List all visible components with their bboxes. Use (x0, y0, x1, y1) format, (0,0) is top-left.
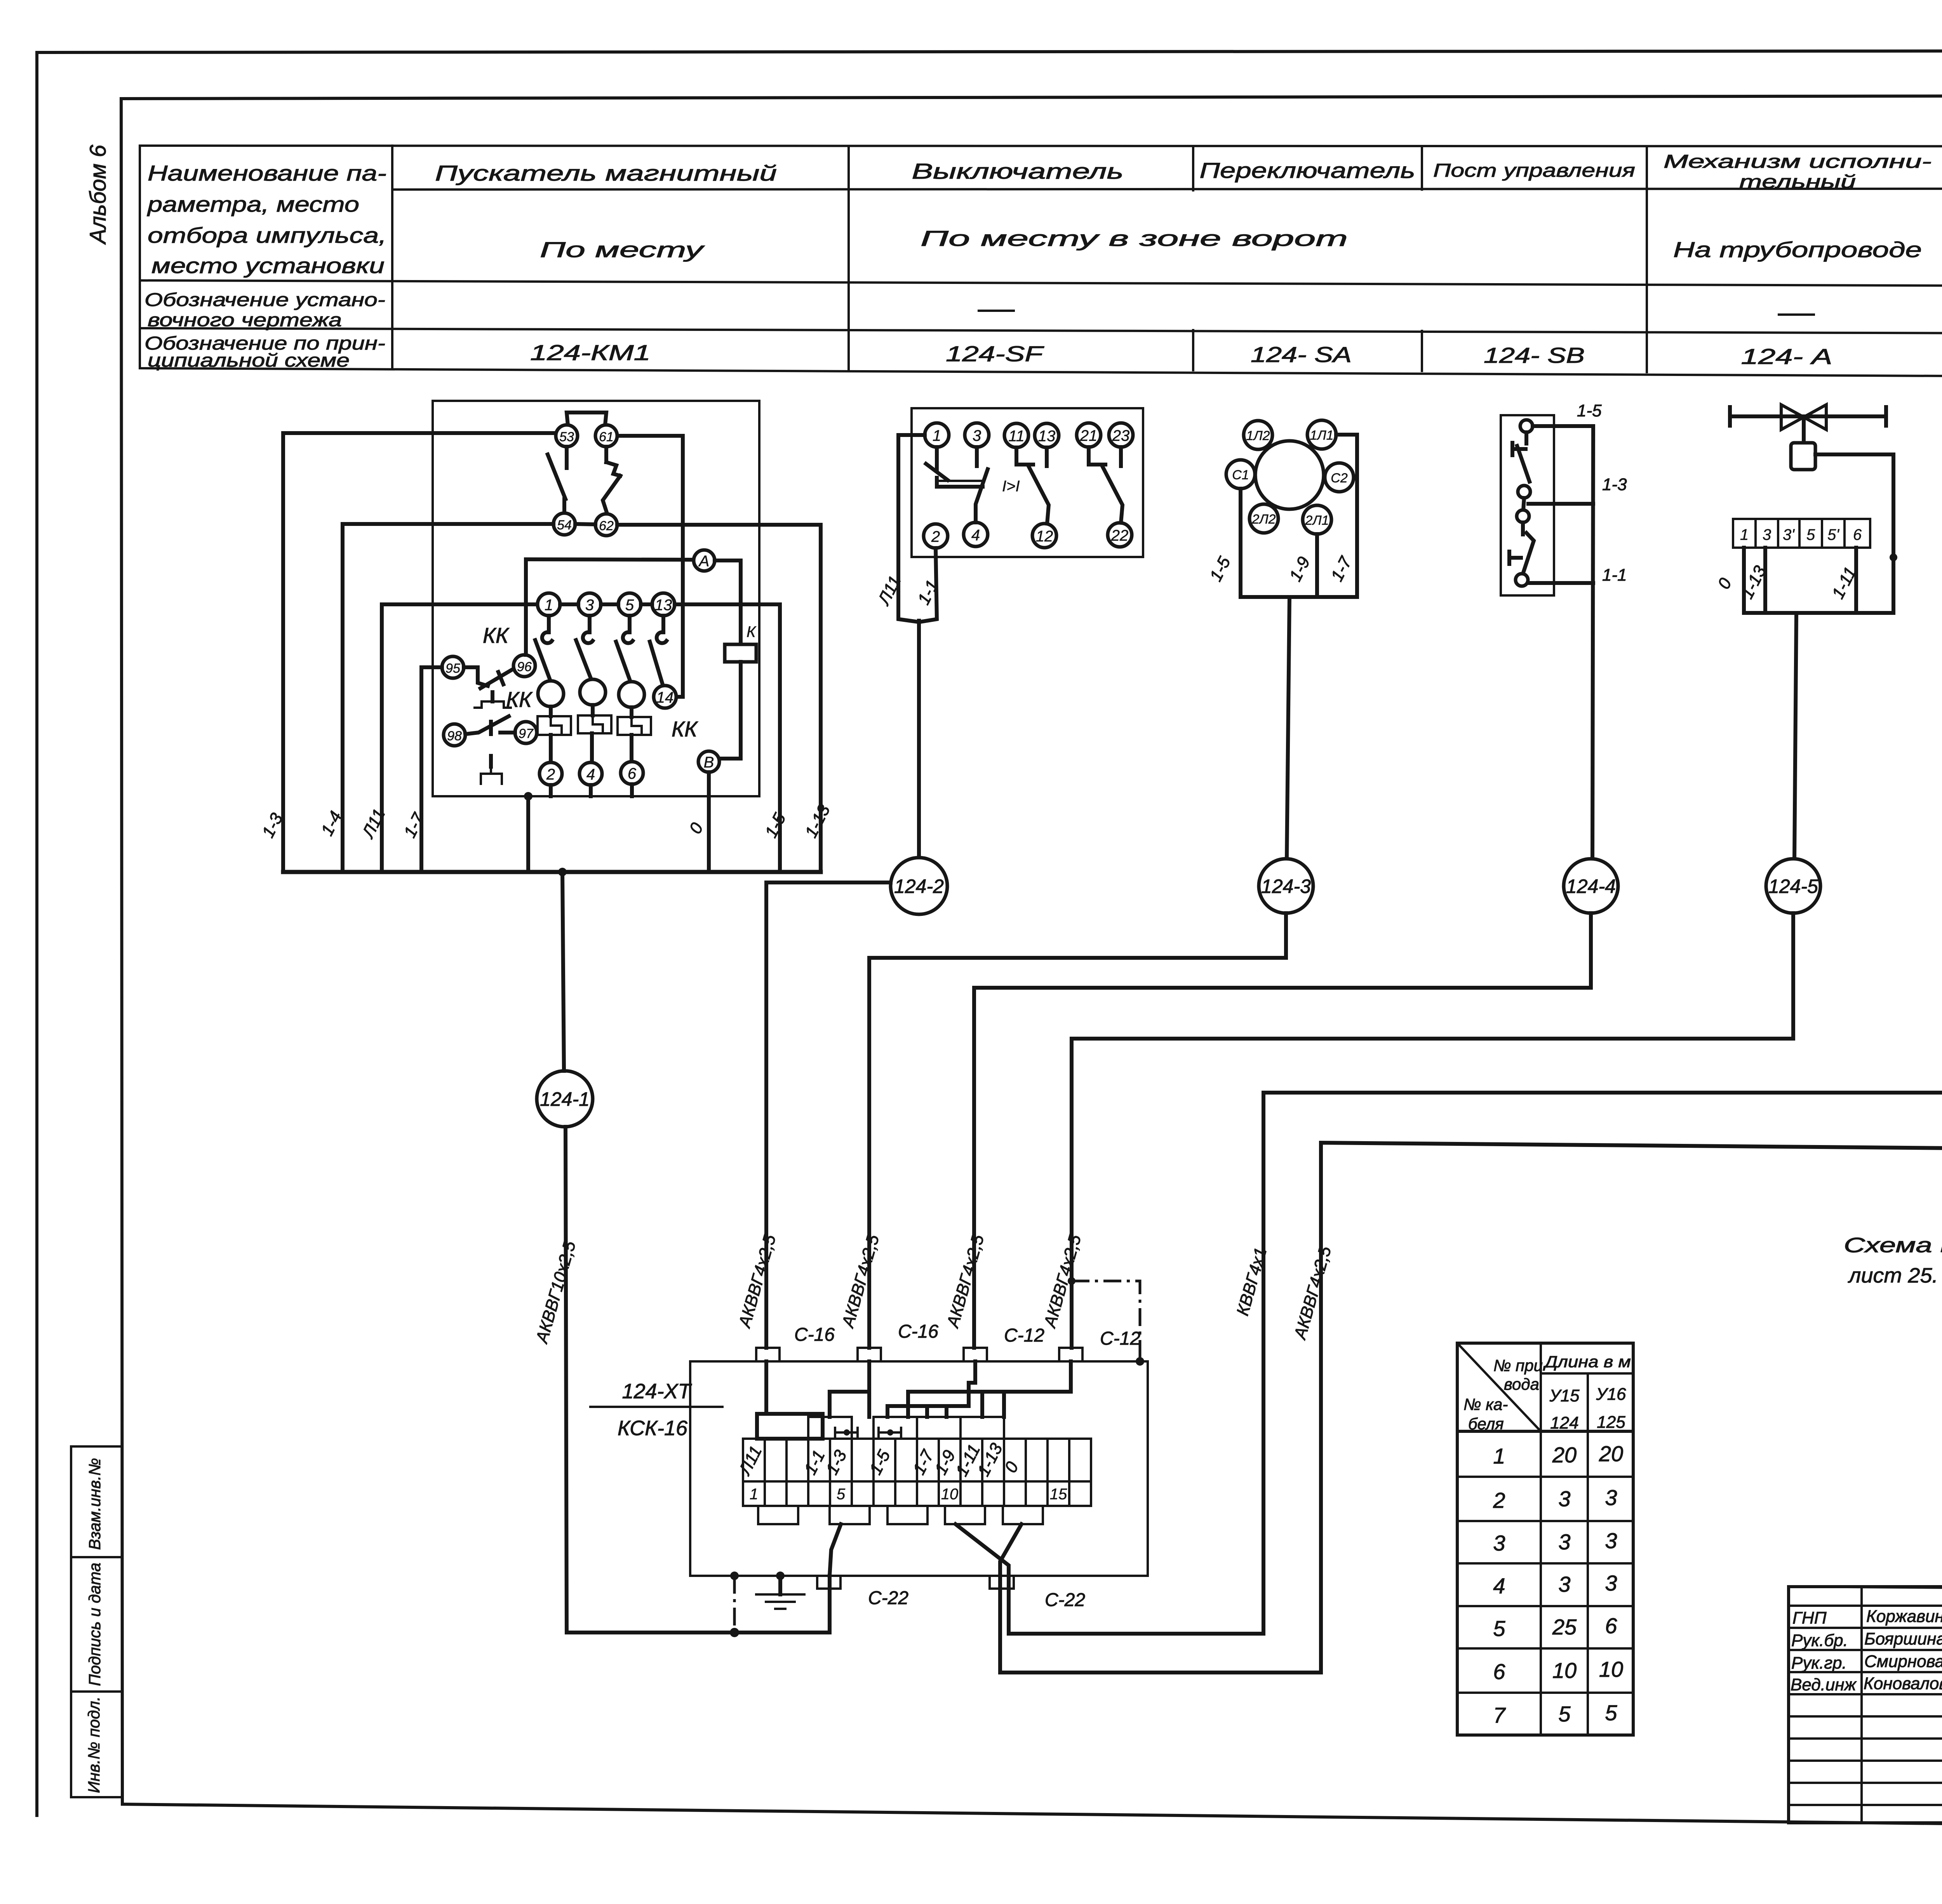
actuator wire 1-13 (1763, 548, 1767, 613)
svg-text:6: 6 (1493, 1659, 1505, 1684)
svg-text:23: 23 (1112, 427, 1130, 444)
svg-text:Пост управления: Пост управления (1433, 160, 1635, 181)
header row: device names (435, 151, 1942, 192)
svg-text:беля: беля (1468, 1415, 1504, 1433)
svg-text:10: 10 (1552, 1658, 1577, 1683)
wire L11 to contact row (382, 604, 538, 872)
SF terminal 1 (925, 423, 949, 447)
svg-text:Обозначение устано-: Обозначение устано- (144, 290, 385, 310)
svg-text:3: 3 (1558, 1530, 1570, 1554)
svg-text:4: 4 (971, 527, 980, 544)
box entry C-12 no4 (1059, 1328, 1140, 1361)
cable 124-7 run to box (1000, 1143, 1942, 1673)
SF terminal 22 (1108, 523, 1132, 547)
actuator drop to cable (1794, 613, 1796, 859)
svg-text:3: 3 (585, 597, 594, 614)
svg-text:4: 4 (1493, 1573, 1505, 1598)
terminals 2 4 6 (539, 762, 562, 785)
svg-text:124- SВ: 124- SВ (1484, 343, 1585, 367)
actuator junction dot (1890, 553, 1897, 561)
svg-text:124- А: 124- А (1741, 344, 1832, 369)
svg-text:У15: У15 (1549, 1386, 1580, 1405)
actuator head box (1791, 443, 1815, 470)
SF terminal 13 (1035, 423, 1059, 447)
spare core dash-dot from cable 124-5 (1068, 1277, 1144, 1366)
svg-text:По месту: По месту (540, 237, 705, 262)
SF terminal 2 (924, 524, 948, 548)
svg-text:Вед.инж: Вед.инж (1791, 1675, 1857, 1694)
cable4 distribution wires (908, 1361, 1071, 1417)
cable 124-5 run to box (1072, 913, 1793, 1348)
cable 124-2 left run down (766, 882, 891, 1348)
thermal element circles (538, 679, 644, 707)
svg-text:3: 3 (1558, 1486, 1570, 1511)
cable2 distribution wires (830, 1361, 869, 1417)
node B (698, 751, 719, 772)
svg-text:раметра, место: раметра, место (147, 192, 359, 216)
svg-text:Бояршина: Бояршина (1864, 1629, 1942, 1648)
svg-text:Механизм исполни-: Механизм исполни- (1664, 151, 1932, 172)
SB top terminal (1520, 420, 1533, 432)
cable1 wire into lug (764, 1361, 768, 1414)
SB middle terminals (1517, 486, 1530, 522)
bus junction dot (558, 868, 567, 876)
svg-text:3: 3 (1605, 1528, 1617, 1553)
svg-text:2: 2 (1493, 1488, 1505, 1512)
terminal 98 (444, 724, 465, 746)
svg-text:Наименование па-: Наименование па- (148, 161, 386, 185)
lug above cells 7-8 (874, 1417, 917, 1439)
cable table rows (1493, 1441, 1623, 1727)
svg-text:20: 20 (1552, 1443, 1577, 1467)
svg-text:5': 5' (1827, 526, 1839, 543)
cable 124-1 run (562, 872, 830, 1632)
SA terminal 2L1 (1303, 505, 1331, 534)
actuator wire right (1815, 454, 1893, 613)
svg-text:54: 54 (557, 518, 572, 533)
cable circle 124-4 (1564, 859, 1618, 913)
svg-text:3: 3 (1558, 1572, 1570, 1596)
svg-text:5: 5 (1493, 1616, 1505, 1641)
SB start button contact (1509, 522, 1534, 574)
actuator wire 1-11 (1854, 548, 1858, 613)
strip cell labels (735, 1440, 1022, 1479)
svg-text:1: 1 (933, 427, 941, 444)
svg-text:124-SF: 124-SF (946, 341, 1044, 366)
svg-text:Подпись и дата: Подпись и дата (85, 1563, 104, 1686)
svg-text:7: 7 (1493, 1703, 1506, 1727)
svg-text:Рук.бр.: Рук.бр. (1791, 1631, 1848, 1650)
svg-text:3': 3' (1783, 526, 1795, 543)
SA terminal 2L2 (1249, 504, 1278, 533)
svg-text:4: 4 (586, 766, 595, 783)
svg-text:С-12: С-12 (1100, 1328, 1140, 1349)
breaker 124-SF box (912, 408, 1143, 557)
wire 96 to node A wire (524, 559, 528, 655)
svg-text:6: 6 (1853, 526, 1862, 543)
signature table texts (1791, 1607, 1942, 1694)
svg-text:2Л2: 2Л2 (1251, 512, 1276, 527)
title strip top line (1789, 1587, 1942, 1589)
selector 124-SA dial (1255, 441, 1324, 509)
header row: installation drawing designations (979, 300, 1942, 327)
starter cable down wire (526, 796, 530, 872)
svg-text:С2: С2 (1331, 471, 1348, 486)
SB wire 1-5 (1533, 424, 1593, 428)
starter outgoing bus (283, 870, 821, 874)
SB wire 1-1 (1528, 581, 1593, 585)
main contact terminals 1 3 5 13 (538, 593, 560, 616)
svg-text:15: 15 (1050, 1486, 1067, 1503)
SA wire 1-9 from 2L1 (1315, 534, 1319, 597)
svg-text:125: 125 (1597, 1413, 1625, 1432)
svg-text:С-22: С-22 (1045, 1590, 1085, 1610)
node A wire (526, 559, 694, 560)
svg-text:3: 3 (973, 427, 981, 444)
svg-text:53: 53 (559, 430, 574, 444)
strip terminal numbers (750, 1486, 1067, 1503)
header table grid (140, 146, 1942, 379)
svg-text:К: К (747, 623, 757, 640)
SF aux contact 11-12 (1016, 447, 1049, 524)
box exit C-22 no2 (990, 1576, 1085, 1610)
box entry C-16 no2 (858, 1321, 938, 1361)
svg-text:Взам.инв.№: Взам.инв.№ (85, 1458, 104, 1550)
wire 0 from B to bus (707, 772, 711, 872)
ground junction dots on box bottom (730, 1572, 785, 1580)
SA wire 1-5 from C1 (1239, 489, 1242, 597)
svg-text:14: 14 (656, 689, 674, 706)
svg-text:13: 13 (655, 597, 672, 614)
svg-text:25: 25 (1552, 1615, 1577, 1639)
cable length table (1457, 1343, 1633, 1735)
svg-text:20: 20 (1599, 1441, 1623, 1466)
lug above cells 9-10 (917, 1417, 961, 1439)
svg-text:3: 3 (1605, 1485, 1617, 1510)
svg-text:11: 11 (1008, 428, 1025, 445)
SB bottom terminal (1516, 574, 1528, 586)
note text (1844, 1234, 1942, 1287)
wire lug to C-22 no2 inner (955, 1524, 1009, 1576)
svg-text:3: 3 (1605, 1571, 1617, 1595)
svg-text:КК: КК (672, 717, 698, 741)
svg-text:тельный: тельный (1739, 172, 1856, 192)
wire lug to C-22 no1 (830, 1524, 841, 1576)
svg-text:22: 22 (1111, 527, 1129, 544)
SA terminal 1L2 (1244, 421, 1272, 449)
signature table (1789, 1587, 1942, 1823)
cable circle 124-3 (1259, 859, 1313, 913)
terminal strip body (743, 1439, 1091, 1506)
contact hooks below terminals (542, 616, 666, 643)
svg-text:А: А (698, 553, 710, 570)
svg-text:вочного чертежа: вочного чертежа (148, 310, 342, 331)
svg-text:2: 2 (546, 766, 555, 783)
left margin stamp column (71, 1446, 122, 1797)
svg-text:61: 61 (599, 430, 614, 444)
cable1 lug above strip (757, 1414, 823, 1439)
SF aux contact 21-22 (1089, 447, 1122, 523)
svg-text:6: 6 (1605, 1613, 1617, 1638)
svg-text:У16: У16 (1596, 1385, 1626, 1404)
cable3 distribution wires (887, 1361, 975, 1417)
svg-text:124-4: 124-4 (1566, 875, 1616, 897)
svg-text:6: 6 (628, 765, 637, 782)
svg-text:124-КМ1: 124-КМ1 (530, 340, 651, 365)
wire 1-7 to 95 (421, 667, 442, 872)
terminal 61 (595, 425, 617, 447)
svg-text:отбора импульса,: отбора импульса, (148, 223, 386, 247)
SF terminal 23 (1109, 423, 1133, 447)
header row: schematic designations (530, 340, 1942, 371)
wire 1-5 from terminal 13 (675, 604, 780, 872)
label 124-XT / KSK-16 (590, 1380, 722, 1440)
svg-text:124- SA: 124- SA (1251, 342, 1352, 367)
terminal 53 (556, 425, 578, 447)
SF terminal 21 (1077, 423, 1101, 447)
svg-text:С1: С1 (1232, 468, 1249, 482)
SA terminal C1 (1226, 460, 1255, 489)
svg-text:124-2: 124-2 (894, 875, 944, 897)
svg-text:№ при-: № при- (1493, 1356, 1548, 1375)
svg-text:КК: КК (483, 623, 510, 647)
svg-text:13: 13 (1038, 428, 1056, 445)
starter 124-KM1 device box (433, 401, 759, 796)
svg-text:С-16: С-16 (794, 1324, 835, 1345)
box entry C-16 no1 (756, 1324, 835, 1361)
header table column 1 texts (144, 161, 386, 371)
wire coil K to node B (720, 662, 741, 759)
ground symbol (756, 1576, 804, 1609)
svg-text:С-16: С-16 (898, 1321, 938, 1342)
terminal 96 (513, 655, 535, 677)
strip jumper marks (835, 1428, 901, 1437)
svg-text:По месту в зоне ворот: По месту в зоне ворот (921, 226, 1348, 251)
svg-text:12: 12 (1036, 528, 1053, 545)
svg-text:Пускатель магнитный: Пускатель магнитный (435, 161, 777, 185)
svg-text:124-1: 124-1 (540, 1088, 590, 1110)
SA drop to cable (1287, 597, 1289, 859)
svg-text:1: 1 (1493, 1444, 1505, 1468)
svg-text:10: 10 (941, 1486, 959, 1503)
SF terminal 11 (1004, 423, 1028, 447)
svg-text:3: 3 (1763, 526, 1771, 543)
box exit C-22 no1 (817, 1576, 908, 1608)
svg-text:1Л2: 1Л2 (1246, 428, 1270, 443)
junction dot on box bottom (524, 792, 532, 801)
terminal 97 (515, 722, 537, 743)
svg-text:97: 97 (519, 726, 534, 741)
wire 1-3 top run (283, 433, 556, 872)
SF main contact with release (926, 447, 988, 522)
svg-text:124-5: 124-5 (1768, 875, 1818, 897)
svg-text:ГНП: ГНП (1792, 1608, 1827, 1627)
auxiliary contact blade 61-62 (603, 447, 620, 513)
SA terminal 1L1 (1307, 420, 1336, 449)
node A (694, 550, 715, 571)
svg-text:Выключатель: Выключатель (912, 159, 1124, 183)
lug above cells 11-12 (961, 1417, 1004, 1439)
wire from 61 to terminal 14 (618, 436, 683, 697)
SF terminal 3 (965, 423, 989, 447)
svg-text:5: 5 (1605, 1700, 1617, 1725)
terminal 62 (595, 514, 617, 536)
svg-text:10: 10 (1599, 1657, 1623, 1681)
cable table header texts (1463, 1352, 1631, 1433)
stubs terminals to box bottom (551, 784, 632, 796)
svg-text:В: В (704, 754, 714, 771)
SA wire 1-7 from 1L1 (1336, 435, 1357, 597)
svg-text:5: 5 (625, 597, 634, 614)
actuator wire 0 (1742, 548, 1746, 613)
svg-text:№ ка-: № ка- (1463, 1395, 1508, 1413)
svg-text:Альбом 6: Альбом 6 (85, 144, 111, 245)
valve stem (1802, 417, 1806, 443)
svg-text:Коржавин: Коржавин (1866, 1607, 1942, 1626)
SF wires L11 1-1 down pair (898, 435, 937, 858)
SB wire 1-3 (1528, 502, 1593, 506)
wire lug to C-22 no2 outer (1000, 1524, 1021, 1576)
svg-text:Инв.№ подл.: Инв.№ подл. (85, 1697, 103, 1793)
header row: installation places (540, 218, 1942, 270)
svg-text:124-3: 124-3 (1261, 875, 1311, 897)
svg-text:5: 5 (1806, 526, 1815, 543)
wire links between contact terminals (560, 602, 652, 606)
svg-text:2: 2 (931, 528, 940, 545)
svg-text:62: 62 (599, 519, 614, 533)
main contact blades (535, 640, 663, 684)
SA bottom merge wire (1241, 595, 1357, 599)
svg-text:124-ХТ: 124-ХТ (622, 1380, 692, 1403)
svg-text:98: 98 (447, 729, 462, 743)
lug above cells 4-5 (808, 1417, 852, 1439)
cable 124-3 run to box (869, 913, 1286, 1348)
svg-text:5: 5 (837, 1486, 846, 1503)
cable circle 124-1 (537, 1071, 593, 1127)
svg-text:Переключатель: Переключатель (1200, 158, 1415, 183)
svg-text:95: 95 (445, 661, 460, 676)
svg-text:ципиальной схеме: ципиальной схеме (148, 350, 350, 371)
svg-text:2Л1: 2Л1 (1305, 513, 1329, 528)
terminal 54 (553, 513, 575, 535)
svg-text:1-5: 1-5 (1577, 401, 1602, 420)
thermal NC contact 95-96 (464, 667, 513, 708)
svg-text:С-22: С-22 (868, 1588, 908, 1608)
wire jumper 53-61 (567, 412, 606, 425)
svg-text:1: 1 (1740, 526, 1749, 543)
svg-text:124: 124 (1550, 1413, 1578, 1432)
wire A to coil K (715, 560, 741, 644)
actuator pipe (1730, 407, 1886, 426)
actuator terminal row (1733, 519, 1870, 548)
valve symbol (1781, 405, 1826, 430)
svg-text:1: 1 (750, 1486, 758, 1503)
svg-text:1: 1 (545, 597, 553, 614)
svg-text:1-1: 1-1 (1602, 566, 1627, 585)
svg-text:Длина в м: Длина в м (1543, 1352, 1631, 1371)
svg-text:1Л1: 1Л1 (1310, 428, 1333, 443)
terminal 14 (654, 686, 676, 708)
svg-text:КСК-16: КСК-16 (618, 1417, 688, 1440)
SF terminal 12 (1032, 524, 1056, 548)
svg-text:3: 3 (1493, 1531, 1505, 1555)
svg-text:вода: вода (1504, 1375, 1539, 1393)
terminal 95 (442, 656, 464, 678)
actuator bottom merge wire (1744, 611, 1893, 615)
wire 1-4 / 1-13 run through 54 62 (343, 524, 821, 872)
svg-text:Схема выполнена на основани: Схема выполнена на основании схемы управ… (1844, 1234, 1942, 1257)
svg-text:Рук.гр.: Рук.гр. (1791, 1653, 1847, 1673)
grounding dash-dot conductor (730, 1576, 739, 1637)
contact blade 53-54 (548, 447, 567, 512)
svg-text:96: 96 (517, 660, 532, 674)
cable circle 124-2 (891, 858, 947, 914)
NO test contact 98-97 (465, 716, 515, 784)
svg-text:С-12: С-12 (1004, 1325, 1044, 1346)
svg-text:Коновалова: Коновалова (1864, 1674, 1942, 1693)
svg-text:Смирнова: Смирнова (1864, 1652, 1942, 1671)
control post 124-SB box (1501, 415, 1554, 595)
box entry C-12 no3 (964, 1325, 1044, 1361)
lugs below strip (758, 1506, 1043, 1524)
coil K (725, 623, 757, 662)
cable 124-4 run to box (974, 913, 1591, 1348)
heater elements KK (538, 705, 651, 762)
SA terminal C2 (1325, 463, 1354, 492)
SF terminal 4 (964, 522, 988, 546)
cable 124-6 run to box (1009, 913, 1942, 1634)
svg-text:5: 5 (1558, 1702, 1571, 1726)
SB stop button contact (1512, 432, 1530, 482)
svg-text:21: 21 (1080, 427, 1098, 444)
cable circle 124-5 (1766, 859, 1820, 913)
svg-text:1-3: 1-3 (1602, 475, 1627, 494)
svg-text:лист 25.: лист 25. (1848, 1264, 1938, 1287)
svg-text:I>I: I>I (1002, 478, 1020, 495)
svg-text:На трубопроводе: На трубопроводе (1673, 237, 1922, 262)
terminal box 124-XT outline (690, 1361, 1148, 1576)
svg-text:место установки: место установки (151, 253, 385, 278)
